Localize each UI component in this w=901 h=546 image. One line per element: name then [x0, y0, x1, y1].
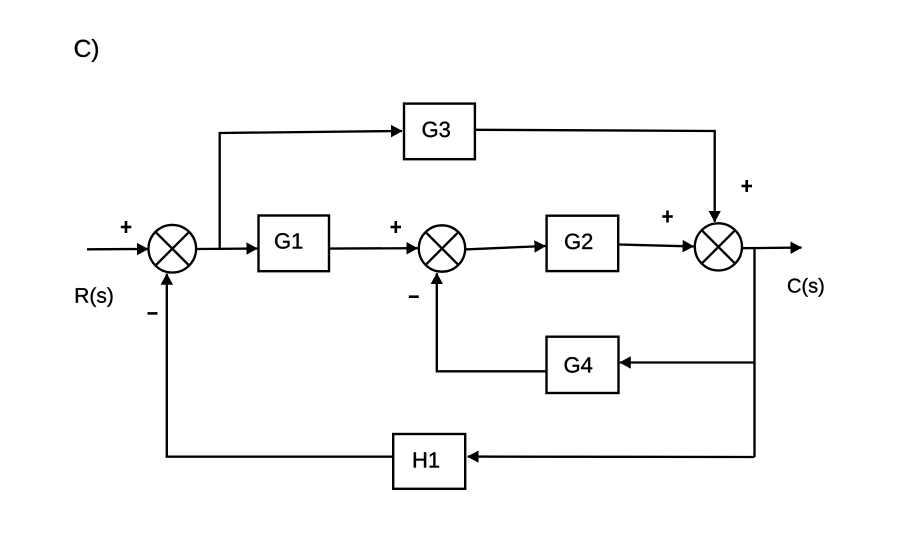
block G2 [547, 216, 619, 271]
wire: S1 to G1 [196, 247, 257, 250]
sign - at S2 feedback [409, 295, 419, 298]
sign + above S3 [742, 180, 753, 192]
wire: G2 to summer S3 [619, 245, 694, 247]
sign - at S1 feedback [148, 312, 158, 315]
wire: feedback vertical from output node [753, 249, 755, 458]
sign + at S1 input [121, 221, 132, 233]
label C) [75, 39, 98, 62]
block G1 [259, 216, 330, 272]
wire: branch into G4 [620, 361, 755, 363]
wire: H1 output left and up into S1 [167, 274, 393, 457]
wire: S2 to G2 [465, 246, 545, 249]
wire: input R(s) to summer S1 [87, 248, 148, 251]
summer S3 [695, 223, 742, 270]
wire: S3 to output C(s) [742, 246, 802, 249]
node R(s) [76, 287, 113, 307]
wire: feedback into H1 [468, 455, 755, 458]
block G4 [547, 337, 619, 393]
wire: branch up from node after S1 [219, 132, 221, 249]
summer S1 [149, 225, 197, 273]
sign + at S3 left input [662, 211, 673, 223]
block G3 [404, 104, 475, 160]
wire: G4 output left and up into S2 [437, 273, 547, 371]
summer S2 [419, 225, 465, 271]
node C(s) [788, 278, 824, 297]
wire: top run to G3 [219, 131, 402, 133]
block H1 [393, 434, 465, 489]
wire: G3 output to summer S3 (over and down) [476, 130, 715, 222]
sign + at S2 input [391, 221, 402, 233]
wire: G1 to summer S2 [329, 247, 418, 250]
